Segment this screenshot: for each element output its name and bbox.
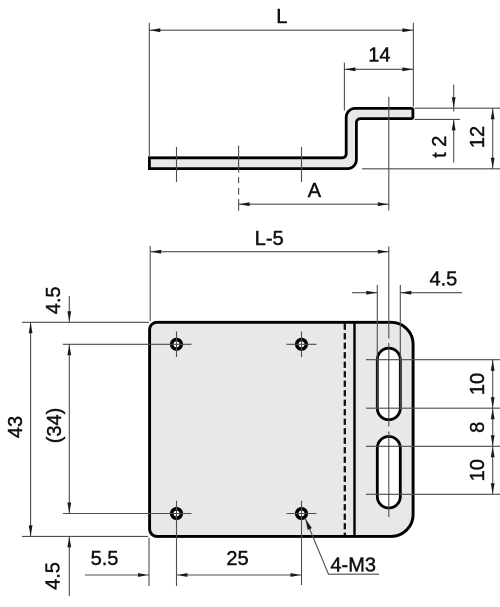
- dimension line 4.5 bottom-left lower tail: [68, 536, 70, 596]
- crosshair hole top-left vertical: [176, 332, 178, 358]
- extension line right end of L: [412, 23, 414, 107]
- crosshair hole bottom-left horizontal: [63, 513, 192, 515]
- arrow 10 top up: [491, 360, 495, 371]
- crosshair hole top-right vertical: [301, 332, 303, 358]
- dimension line 4.5 slot left tail: [352, 292, 377, 294]
- arrow 14 left: [344, 67, 355, 71]
- extension line plate bottom left: [22, 535, 148, 537]
- dimension line 12: [492, 108, 494, 169]
- arrow A left: [239, 202, 250, 206]
- dimension line A: [239, 203, 389, 205]
- extension line plate left edge bottom: [148, 538, 150, 586]
- extension line left end of L: [148, 23, 150, 156]
- dimension line 10-8-10: [492, 360, 494, 495]
- svg-text:25: 25: [226, 548, 248, 570]
- bend line (dashed): [344, 324, 346, 536]
- dimension line 5.5 tail: [85, 574, 149, 576]
- arrow A right: [378, 202, 389, 206]
- extension line L-5 left: [149, 246, 151, 321]
- slot center line vertical (center-line dashes): [388, 246, 390, 517]
- extension line slot width right: [399, 285, 401, 409]
- svg-text:8: 8: [467, 422, 489, 433]
- slot arc center line 3: [366, 445, 500, 447]
- arrow 14 right: [402, 67, 413, 71]
- extension line top of plate thickness: [415, 107, 500, 109]
- crosshair hole top-left horizontal: [63, 343, 192, 345]
- extension line slot width left: [376, 285, 378, 409]
- center line hole 2 in side view: [301, 147, 303, 182]
- dimension line (34): [68, 344, 70, 513]
- slot arc center line 1: [366, 359, 500, 361]
- bracket side profile (Z-bent sheet): [149, 108, 413, 168]
- arrow 43 up: [29, 322, 33, 333]
- slot lower: [377, 437, 400, 509]
- arrow 10 top down: [491, 397, 495, 408]
- svg-text:5.5: 5.5: [91, 548, 119, 570]
- extension line for 14 at bend: [343, 63, 345, 111]
- plate outline: [150, 322, 414, 536]
- hole bottom-right: [297, 509, 307, 519]
- hole top-left: [172, 340, 182, 350]
- arrow 4.5 slot left-pointing: [400, 291, 411, 295]
- svg-text:14: 14: [368, 45, 390, 67]
- dimension line 25: [177, 574, 302, 576]
- arrow L-5 right: [378, 250, 389, 254]
- center line hole 1 in side view: [176, 147, 178, 182]
- svg-text:4-M3: 4-M3: [330, 555, 376, 577]
- svg-text:L-5: L-5: [255, 228, 284, 250]
- arrow 12 down: [491, 158, 495, 169]
- dimension line t2 upper segment: [453, 85, 455, 112]
- arrow t2 up: [452, 119, 456, 130]
- extension line bottom of upper flange: [415, 118, 461, 120]
- svg-text:L: L: [276, 6, 287, 28]
- slot arc center line 2: [366, 407, 500, 409]
- slot arc center line 4: [366, 493, 500, 495]
- svg-text:10: 10: [467, 459, 489, 481]
- leader line 4-M3: [306, 519, 380, 574]
- dimension line 4.5 top-left upper tail: [68, 296, 70, 322]
- arrow 12 up: [491, 108, 495, 119]
- arrow 25 left: [177, 573, 188, 577]
- dimension line t2 lower segment: [453, 119, 455, 162]
- crosshair hole top-right horizontal: [287, 343, 317, 345]
- svg-text:4.5: 4.5: [43, 286, 65, 314]
- crosshair hole bottom-right vertical: [301, 501, 303, 585]
- arrow 34 up (shared with 4.5): [67, 344, 71, 355]
- arrow 5.5 right-pointing: [138, 573, 149, 577]
- hole bottom-left: [172, 509, 182, 519]
- hole top-right: [297, 340, 307, 350]
- dimension line 4.5 slot right tail: [400, 292, 462, 294]
- arrow L-5 left: [150, 250, 161, 254]
- dimension line 43: [30, 322, 32, 536]
- extension line plate top left: [22, 321, 149, 323]
- arrow 10 bottom up: [491, 446, 495, 457]
- crosshair hole bottom-right horizontal: [287, 513, 317, 515]
- center line slot in side view: [388, 97, 390, 211]
- arrow t2 down: [452, 97, 456, 108]
- svg-text:(34): (34): [44, 408, 66, 444]
- arrow L left: [149, 28, 160, 32]
- arrow 43 down: [29, 525, 33, 536]
- svg-text:t 2: t 2: [429, 136, 451, 158]
- center line A datum (dashed): [238, 146, 240, 211]
- arrow 34 down (shared with lower 4.5): [67, 503, 71, 514]
- arrow 4.5 slot right-pointing: [366, 291, 377, 295]
- svg-text:12: 12: [467, 126, 489, 148]
- dimension line L: [149, 29, 413, 31]
- extension line bottom of lower flange: [362, 168, 500, 170]
- svg-text:43: 43: [5, 416, 27, 438]
- slot upper: [377, 348, 400, 420]
- arrow 8 up: [491, 408, 495, 419]
- dimension line 14: [344, 68, 413, 70]
- arrow 8 down: [491, 435, 495, 446]
- dimension line L-5: [150, 251, 389, 253]
- svg-text:4.5: 4.5: [43, 562, 65, 590]
- svg-text:10: 10: [467, 373, 489, 395]
- crosshair hole bottom-left vertical: [176, 501, 178, 586]
- svg-text:A: A: [308, 180, 322, 202]
- leader arrow 4-M3: [305, 519, 312, 530]
- bend line (solid): [353, 324, 355, 536]
- svg-text:4.5: 4.5: [429, 268, 457, 290]
- arrow 4.5 top-left down: [67, 311, 71, 322]
- arrow 4.5 bottom-left up: [67, 536, 71, 547]
- arrow 25 right: [291, 573, 302, 577]
- arrow L right: [402, 28, 413, 32]
- arrow 10 bottom down: [491, 483, 495, 494]
